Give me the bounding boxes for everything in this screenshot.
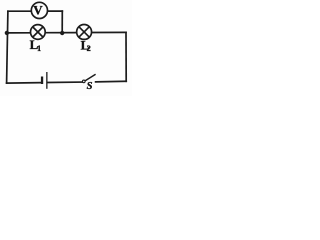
wire voltmeter loop top right segment [47, 10, 62, 12]
lamp L2 cross [79, 27, 90, 38]
switch S pivot circle [83, 80, 86, 83]
wire voltmeter loop right vertical [61, 11, 63, 33]
wire main line: L2 to top-right corner [92, 31, 126, 33]
svg-text:S: S [87, 81, 93, 92]
voltmeter U1 circle [31, 2, 47, 18]
node junction dot right (voltmeter tap) [60, 31, 64, 35]
wire bottom: left corner to battery [7, 82, 41, 85]
lamp L1 circle [30, 25, 45, 40]
wire main line: L1 to L2 [46, 32, 77, 34]
lamp L2 circle [77, 25, 92, 40]
wire right vertical [125, 32, 127, 81]
svg-text:1: 1 [37, 44, 41, 53]
wire bottom: battery to switch pivot [47, 81, 82, 83]
wire voltmeter loop top left segment [8, 10, 32, 12]
wire bottom: switch to bottom-right corner [96, 80, 127, 83]
battery BT1 short thick plate (negative) [41, 77, 43, 85]
wire left vertical (voltmeter loop + left branch down to battery) [7, 11, 8, 83]
svg-text:2: 2 [87, 44, 91, 53]
wire main line: left node to lamp L1 [7, 32, 30, 34]
node junction dot left [5, 31, 9, 35]
battery BT1 long thin plate (positive) [46, 72, 47, 89]
switch S blade [85, 74, 96, 81]
svg-text:V: V [33, 3, 43, 18]
lamp L1 cross [33, 27, 43, 37]
